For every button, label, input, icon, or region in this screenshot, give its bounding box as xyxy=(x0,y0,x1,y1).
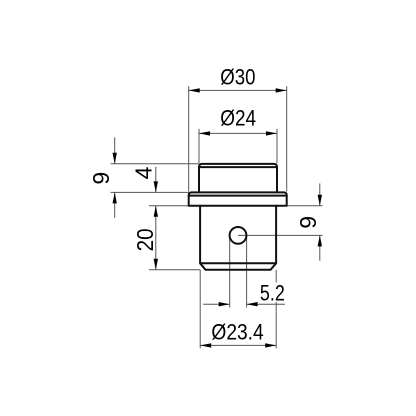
extension line left of Ø23.4 xyxy=(199,270,201,349)
dimension line 9 left upper tail xyxy=(114,137,116,163)
arrowhead Ø23.4 left xyxy=(200,343,211,347)
arrowhead Ø24 right xyxy=(266,131,277,135)
boss outline xyxy=(199,164,277,193)
extension line body bottom left xyxy=(149,269,200,271)
dimension line Ø30 xyxy=(189,89,287,91)
svg-text:Ø23.4: Ø23.4 xyxy=(211,320,263,345)
extension line flange bottom right xyxy=(287,205,323,207)
dimension line 9 right lower tail xyxy=(319,235,321,260)
extension line hole left tangent xyxy=(229,235,231,307)
dimension line 20 xyxy=(155,206,157,270)
extension line right of Ø23.4 xyxy=(275,270,277,349)
extension line left of Ø30 xyxy=(188,86,190,191)
svg-text:Ø30: Ø30 xyxy=(220,65,255,90)
dimension line 9 right upper tail xyxy=(319,183,321,205)
cross hole circle xyxy=(230,227,247,244)
boss tangent edge line xyxy=(199,166,277,168)
svg-text:9: 9 xyxy=(295,216,321,229)
dimension line 5.2 right segment xyxy=(247,303,285,305)
dimension line 9 left lower tail xyxy=(114,192,116,218)
svg-text:20: 20 xyxy=(132,228,158,251)
arrowhead 9 left top xyxy=(113,153,117,164)
flange outline xyxy=(189,192,287,205)
extension line hole centre right xyxy=(238,234,323,236)
arrowhead Ø23.4 right xyxy=(265,343,276,347)
white mask behind 5.2 label xyxy=(258,283,288,303)
arrowhead 20 bottom xyxy=(154,259,158,270)
arrowhead 20 top xyxy=(154,206,158,217)
extension line flange bottom left xyxy=(149,205,189,207)
flange tangent edge line xyxy=(189,195,287,197)
arrowhead Ø30 left xyxy=(189,88,200,92)
extension line right of Ø24 xyxy=(276,129,278,163)
body outline with bottom chamfer xyxy=(200,206,276,270)
dimension line 5.2 left segment xyxy=(203,303,230,305)
svg-text:5.2: 5.2 xyxy=(260,280,285,305)
body chamfer edge line xyxy=(200,262,276,264)
extension line right of Ø30 xyxy=(286,86,288,191)
svg-text:Ø24: Ø24 xyxy=(220,106,256,131)
arrowhead Ø24 left xyxy=(199,131,210,135)
dimension line Ø24 xyxy=(199,132,277,134)
arrowhead 5.2 right xyxy=(247,302,258,306)
extension line flange top left xyxy=(111,191,189,193)
dimension line 4 xyxy=(155,167,157,193)
arrowhead 9 right bottom xyxy=(318,235,322,246)
arrowhead 9 left bottom xyxy=(113,192,117,203)
arrowhead 9 right top xyxy=(318,195,322,206)
arrowhead Ø30 right xyxy=(276,88,287,92)
arrowhead 5.2 left xyxy=(219,302,230,306)
extension line boss top left xyxy=(111,163,199,165)
svg-text:4: 4 xyxy=(131,166,157,179)
svg-text:9: 9 xyxy=(88,172,114,185)
extension line hole right tangent xyxy=(246,235,248,307)
dimension line Ø23.4 xyxy=(200,344,276,346)
extension line left of Ø24 xyxy=(198,129,200,163)
arrowhead 4 bottom xyxy=(154,181,158,192)
